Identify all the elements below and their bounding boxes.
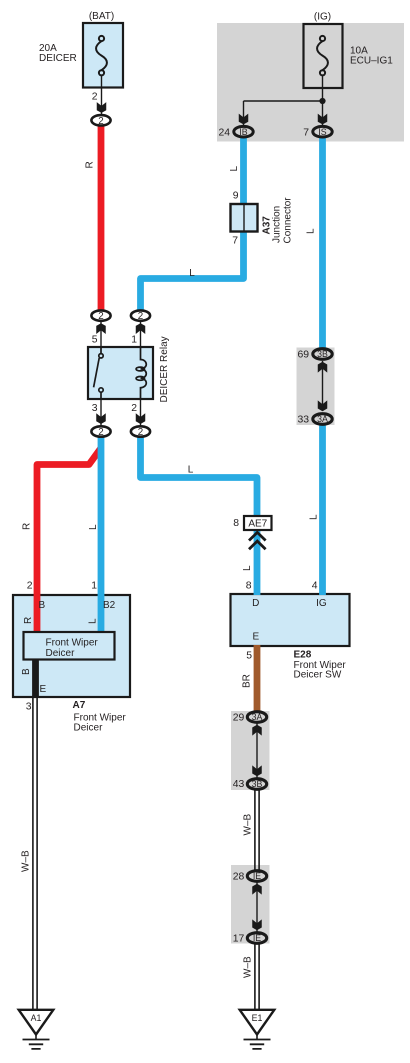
svg-text:Junction: Junction xyxy=(272,206,283,243)
svg-text:B: B xyxy=(39,600,46,611)
svg-text:E1: E1 xyxy=(252,1013,263,1023)
svg-text:IS: IS xyxy=(318,127,326,137)
svg-text:69: 69 xyxy=(297,350,309,361)
svg-text:24: 24 xyxy=(218,128,230,139)
svg-text:3A: 3A xyxy=(252,712,263,722)
svg-text:17: 17 xyxy=(233,934,245,945)
svg-text:Front Wiper: Front Wiper xyxy=(46,638,99,649)
svg-text:(BAT): (BAT) xyxy=(89,11,114,22)
svg-text:E: E xyxy=(40,684,47,695)
svg-text:L: L xyxy=(309,514,320,520)
svg-text:Deicer SW: Deicer SW xyxy=(294,670,342,681)
svg-text:R: R xyxy=(22,523,33,530)
svg-text:33: 33 xyxy=(297,415,309,426)
svg-text:W–B: W–B xyxy=(243,956,254,978)
svg-text:5: 5 xyxy=(92,335,98,346)
svg-text:9: 9 xyxy=(233,191,239,202)
svg-text:3A: 3A xyxy=(317,414,328,424)
svg-text:4: 4 xyxy=(312,581,318,592)
svg-text:L: L xyxy=(88,524,99,530)
svg-text:2: 2 xyxy=(138,427,143,438)
svg-text:2: 2 xyxy=(138,311,143,322)
svg-text:DEICER Relay: DEICER Relay xyxy=(159,336,170,402)
svg-text:28: 28 xyxy=(233,872,245,883)
svg-text:W–B: W–B xyxy=(21,850,32,872)
svg-text:2: 2 xyxy=(98,116,103,127)
svg-text:3B: 3B xyxy=(252,779,263,789)
svg-text:IE: IE xyxy=(253,871,261,881)
svg-text:2: 2 xyxy=(131,403,137,414)
svg-text:IB: IB xyxy=(239,127,247,137)
svg-text:Deicer: Deicer xyxy=(74,723,104,734)
svg-text:R: R xyxy=(85,161,96,168)
svg-text:L: L xyxy=(88,618,99,624)
svg-text:B: B xyxy=(21,668,32,675)
svg-text:29: 29 xyxy=(233,713,245,724)
svg-text:(IG): (IG) xyxy=(314,12,331,23)
svg-text:W–B: W–B xyxy=(243,814,254,836)
svg-text:L: L xyxy=(242,565,253,571)
svg-text:3B: 3B xyxy=(317,349,328,359)
svg-text:DEICER: DEICER xyxy=(39,53,77,64)
svg-text:3: 3 xyxy=(26,702,32,713)
svg-text:8: 8 xyxy=(233,518,239,529)
svg-text:B2: B2 xyxy=(103,600,116,611)
svg-text:ECU–IG1: ECU–IG1 xyxy=(350,55,393,66)
svg-text:3: 3 xyxy=(92,403,98,414)
svg-text:8: 8 xyxy=(246,581,252,592)
svg-text:L: L xyxy=(189,268,195,279)
svg-text:Deicer: Deicer xyxy=(46,648,76,659)
svg-text:R: R xyxy=(23,617,34,624)
svg-text:2: 2 xyxy=(92,92,98,103)
svg-text:2: 2 xyxy=(98,311,103,322)
svg-text:2: 2 xyxy=(98,427,103,438)
svg-text:1: 1 xyxy=(131,335,137,346)
svg-text:L: L xyxy=(188,465,194,476)
svg-text:E: E xyxy=(252,632,259,643)
svg-text:7: 7 xyxy=(232,236,238,247)
svg-text:A1: A1 xyxy=(31,1013,42,1023)
svg-text:IG: IG xyxy=(316,598,327,609)
svg-text:L: L xyxy=(229,166,240,172)
svg-text:BR: BR xyxy=(242,674,253,688)
svg-text:43: 43 xyxy=(233,779,245,790)
svg-text:A7: A7 xyxy=(73,700,86,711)
svg-text:7: 7 xyxy=(303,128,309,139)
svg-text:E28: E28 xyxy=(294,650,312,661)
svg-text:D: D xyxy=(252,598,259,609)
svg-text:IE: IE xyxy=(253,933,261,943)
svg-text:5: 5 xyxy=(246,651,252,662)
svg-text:1: 1 xyxy=(91,581,97,592)
svg-text:L: L xyxy=(306,228,317,234)
svg-text:2: 2 xyxy=(27,581,33,592)
svg-text:AE7: AE7 xyxy=(248,519,267,530)
svg-text:Connector: Connector xyxy=(283,197,294,244)
